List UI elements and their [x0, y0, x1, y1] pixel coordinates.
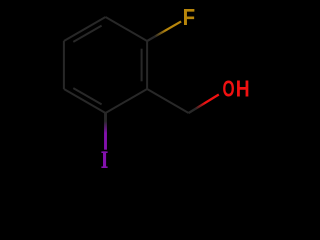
- C-I bond (gradient to iodine): [104, 113, 107, 150]
- benzene ring edge UL-T: [64, 17, 106, 41]
- label I top serif: [101, 151, 107, 153]
- svg-text:F: F: [183, 4, 196, 30]
- label I bottom serif: [101, 166, 107, 168]
- label I stem: [103, 151, 106, 168]
- inner double bond line upper-left: [73, 26, 101, 42]
- benzene ring edge T-UR: [106, 17, 148, 41]
- benzene ring edge UR-LR: [146, 41, 148, 89]
- svg-text:O: O: [223, 76, 235, 102]
- inner double bond line right: [141, 49, 143, 82]
- inner double bond line lower-left: [73, 88, 101, 104]
- benzene ring edge LR-B: [106, 89, 148, 113]
- CH2-O bond (gradient to oxygen): [189, 95, 219, 114]
- benzene ring edge LL-UL: [63, 41, 65, 89]
- C-F bond (gradient to fluorine): [147, 21, 181, 41]
- svg-text:H: H: [236, 76, 250, 102]
- C-CH2 bond: [147, 89, 189, 113]
- benzene ring edge B-LL: [64, 89, 106, 113]
